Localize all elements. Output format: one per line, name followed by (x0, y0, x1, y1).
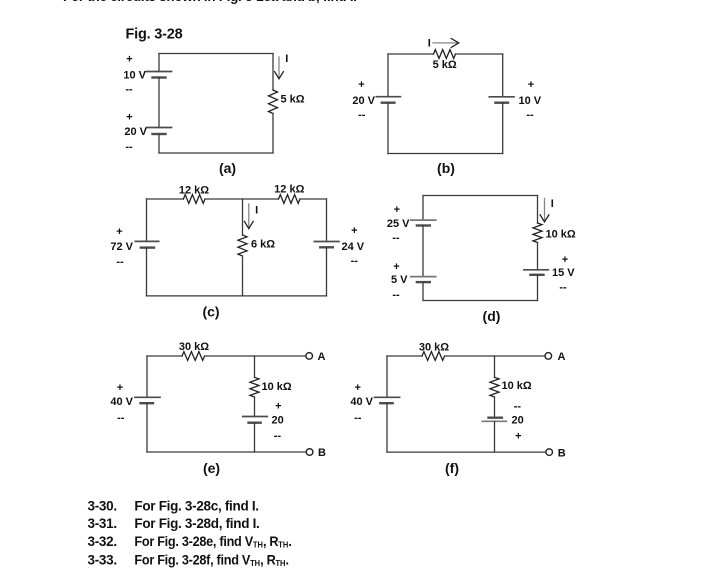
resistor 10 kOhm (e) (250, 377, 259, 397)
svg-text:+: + (117, 382, 123, 394)
svg-text:A: A (318, 351, 326, 363)
battery 5V long plate (411, 276, 436, 278)
battery 25V short plate (417, 224, 430, 226)
svg-text:30 kΩ: 30 kΩ (419, 341, 449, 353)
wire (a) right upper (272, 54, 274, 91)
svg-text:24 V: 24 V (342, 241, 365, 253)
svg-text:--: -- (274, 430, 282, 442)
svg-text:+: + (351, 225, 357, 237)
svg-text:(b): (b) (437, 160, 455, 176)
wire (f) left upper (386, 356, 388, 397)
svg-text:+: + (393, 261, 399, 273)
svg-text:--: -- (358, 109, 366, 121)
wire (d) left upper (422, 196, 424, 221)
svg-text:20 V: 20 V (124, 126, 147, 138)
battery 40V short plate (e) (141, 402, 154, 404)
wire (e) bottom (147, 451, 306, 453)
svg-text:For Fig. 3-28f, find VTH, RTH.: For Fig. 3-28f, find VTH, RTH. (134, 552, 288, 568)
svg-text:20 V: 20 V (352, 95, 375, 107)
svg-text:5 kΩ: 5 kΩ (433, 59, 457, 71)
svg-text:3-32.: 3-32. (88, 534, 117, 549)
svg-text:3-31.: 3-31. (88, 516, 117, 531)
svg-text:I: I (255, 204, 258, 216)
battery 20 long plate (e) (243, 416, 268, 418)
wire (c) left lower (146, 248, 148, 296)
current arrow I (a) shaft (278, 57, 280, 78)
wire (d) right upper (537, 196, 539, 224)
svg-text:--: -- (125, 84, 133, 96)
battery 24V long plate (314, 241, 339, 243)
svg-text:+: + (515, 430, 521, 442)
svg-text:(e): (e) (203, 460, 220, 476)
svg-text:I: I (428, 37, 431, 49)
wire (f) middle mid (494, 397, 496, 418)
battery 20 short plate (e) (249, 422, 261, 424)
wire (f) middle lower (494, 421, 496, 452)
current arrow I (d) head (540, 215, 549, 222)
svg-text:10 V: 10 V (123, 70, 146, 82)
current arrow I (b) shaft (433, 42, 458, 44)
current arrow I (b) head (451, 39, 459, 48)
battery 10V long plate (489, 96, 514, 98)
resistor 5 kOhm (a) (269, 90, 278, 114)
wire (d) right middle (537, 243, 539, 270)
svg-text:+: + (528, 79, 534, 91)
resistor 12 kOhm left (c) (183, 195, 205, 204)
battery V1 10V long plate (147, 71, 172, 73)
wire (e) left upper (146, 356, 148, 397)
resistor 5 kOhm (b) (434, 50, 456, 59)
terminal A (f) (545, 353, 552, 360)
wire (f) top 2 (445, 355, 545, 357)
wire (a) bottom (159, 152, 273, 154)
svg-text:10 V: 10 V (519, 95, 542, 107)
svg-text:For Fig. 3-28c, find I.: For Fig. 3-28c, find I. (134, 498, 258, 513)
current arrow I (d) shaft (544, 199, 546, 221)
wire (c) bottom (147, 295, 327, 297)
svg-text:+: + (126, 54, 132, 66)
svg-text:(f): (f) (445, 460, 459, 476)
wire (b) bottom (388, 153, 503, 155)
svg-text:For Fig. 3-28d, find I.: For Fig. 3-28d, find I. (134, 516, 259, 531)
wire (c) right upper (326, 199, 328, 242)
battery 24V short plate (320, 246, 333, 248)
svg-text:12 kΩ: 12 kΩ (179, 184, 209, 196)
current arrow I (c) shaft (248, 204, 250, 227)
svg-text:A: A (558, 351, 566, 363)
resistor 30 kOhm (e) (182, 352, 205, 361)
current arrow I (a) head (275, 72, 284, 79)
wire (c) left upper (146, 199, 148, 241)
battery 20V short plate (382, 101, 395, 103)
svg-text:B: B (318, 447, 326, 459)
svg-text:--: -- (351, 255, 359, 267)
svg-text:(c): (c) (202, 304, 219, 320)
terminal A (e) (306, 353, 313, 360)
resistor 10 kOhm (d) (533, 223, 542, 243)
terminal B (f) (546, 449, 553, 456)
svg-text:40 V: 40 V (350, 396, 373, 408)
resistor 30 kOhm (f) (422, 352, 445, 361)
wire (d) right lower (537, 275, 539, 301)
wire (b) left upper (387, 54, 389, 97)
wire (c) top 3 (300, 198, 327, 200)
battery 20V long plate (376, 96, 400, 98)
resistor 10 kOhm (f) (490, 377, 499, 397)
svg-text:(d): (d) (483, 308, 501, 324)
svg-text:For Fig. 3-28e, find VTH, RTH.: For Fig. 3-28e, find VTH, RTH. (134, 534, 291, 550)
wire (b) top right (456, 53, 503, 55)
svg-text:--: -- (125, 141, 133, 153)
svg-text:--: -- (559, 282, 567, 294)
battery 25V long plate (411, 219, 436, 221)
battery V2 20V short plate (153, 133, 166, 135)
svg-text:25 V: 25 V (387, 218, 410, 230)
svg-text:+: + (394, 204, 400, 216)
wire (d) left middle (422, 226, 424, 277)
svg-text:6 kΩ: 6 kΩ (251, 238, 275, 250)
wire (e) top 2 (205, 355, 306, 357)
wire (c) top 1 (147, 198, 184, 200)
battery 20 short plate top (f) (489, 417, 502, 419)
wire (c) middle lower (242, 256, 244, 296)
svg-text:5 kΩ: 5 kΩ (281, 94, 305, 106)
battery 20 long plate bottom (f) (482, 420, 506, 422)
wire (b) left lower (387, 103, 389, 154)
wire (e) middle upper (254, 356, 256, 377)
svg-text:+: + (354, 382, 360, 394)
svg-text:15 V: 15 V (552, 267, 575, 279)
wire (e) middle mid (254, 397, 256, 417)
wire (b) right upper (502, 54, 504, 97)
wire (f) left lower (386, 403, 388, 452)
wire (a) left upper (158, 54, 160, 72)
svg-text:--: -- (117, 412, 125, 424)
wire (d) left lower (422, 282, 424, 300)
wire (a) top (159, 53, 273, 55)
svg-text:--: -- (392, 232, 400, 244)
terminal B (e) (306, 449, 313, 456)
svg-text:+: + (358, 79, 364, 91)
svg-text:10 kΩ: 10 kΩ (262, 381, 292, 393)
svg-text:+: + (126, 112, 132, 124)
resistor 6 kOhm (c) (238, 235, 247, 256)
wire (e) top 1 (147, 355, 182, 357)
svg-text:B: B (558, 447, 566, 459)
wire (a) right lower (272, 114, 274, 154)
wire (a) left middle (158, 78, 160, 128)
svg-text:12 kΩ: 12 kΩ (274, 183, 304, 195)
battery V2 20V long plate (147, 127, 172, 129)
battery 40V short plate (f) (380, 402, 392, 404)
battery 72V short plate (141, 246, 154, 248)
svg-text:3-30.: 3-30. (88, 498, 117, 513)
svg-text:10 kΩ: 10 kΩ (546, 229, 576, 241)
svg-text:20: 20 (512, 414, 524, 426)
svg-text:Fig. 3-28: Fig. 3-28 (126, 27, 183, 43)
wire (c) middle upper (242, 199, 244, 235)
svg-text:For the circuits shown in Fig.: For the circuits shown in Fig. 3-28a and… (63, 0, 357, 4)
wire (f) bottom (387, 451, 546, 453)
wire (f) middle upper (494, 356, 496, 377)
resistor 12 kOhm right (c) (279, 195, 301, 204)
svg-text:--: -- (392, 289, 400, 301)
wire (d) top (423, 195, 538, 197)
svg-text:5 V: 5 V (391, 274, 408, 286)
svg-text:+: + (275, 400, 281, 412)
svg-text:10 kΩ: 10 kΩ (502, 380, 532, 392)
wire (f) top 1 (387, 355, 422, 357)
svg-text:--: -- (514, 401, 522, 413)
battery 40V long plate (e) (135, 396, 160, 398)
wire (c) top 2 (205, 198, 279, 200)
svg-text:I: I (551, 198, 554, 210)
wire (e) middle lower (254, 423, 256, 452)
wire (a) left lower (158, 134, 160, 153)
battery 5V short plate (417, 281, 430, 283)
battery 10V short plate (495, 101, 508, 103)
svg-text:3-33.: 3-33. (88, 552, 117, 567)
svg-text:I: I (285, 53, 288, 65)
svg-text:72 V: 72 V (110, 241, 133, 253)
battery 72V long plate (135, 240, 158, 242)
wire (b) right lower (502, 103, 504, 154)
battery 40V long plate (f) (375, 396, 400, 398)
svg-text:(a): (a) (219, 160, 236, 176)
wire (e) left lower (146, 403, 148, 452)
svg-text:--: -- (526, 109, 534, 121)
svg-text:20: 20 (272, 414, 284, 426)
svg-text:--: -- (354, 412, 362, 424)
wire (d) bottom (423, 300, 538, 302)
current arrow I (c) head (244, 221, 253, 228)
svg-text:--: -- (116, 256, 124, 268)
wire (c) right lower (326, 247, 328, 296)
wire (b) top left (388, 53, 434, 55)
battery 15V short plate (530, 274, 543, 276)
svg-text:+: + (562, 254, 568, 266)
battery 15V long plate (524, 269, 549, 271)
svg-text:30 kΩ: 30 kΩ (179, 341, 209, 353)
svg-text:+: + (116, 226, 122, 238)
battery V1 10V short plate (153, 76, 166, 78)
svg-text:40 V: 40 V (110, 396, 133, 408)
